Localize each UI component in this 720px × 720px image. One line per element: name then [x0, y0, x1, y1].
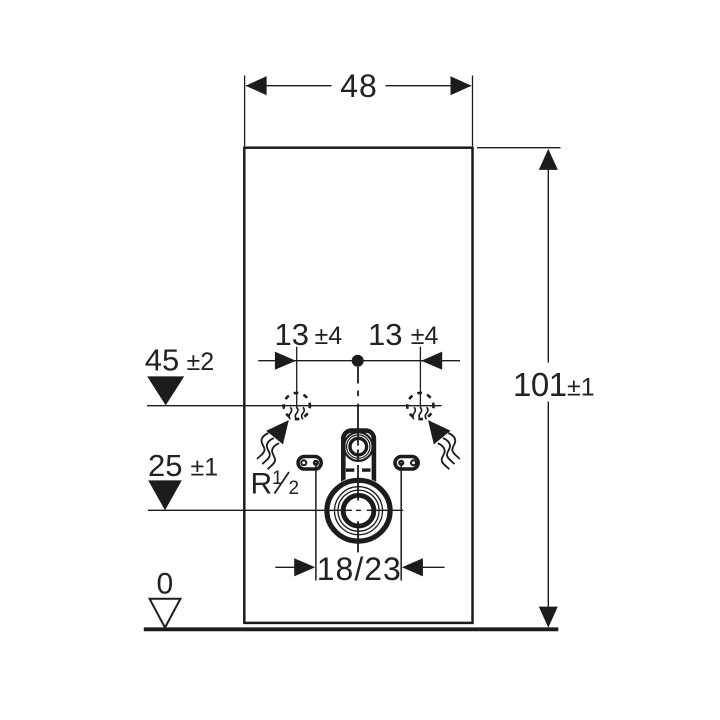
svg-text:13: 13: [368, 317, 402, 352]
dimension line 48 right segment: [386, 85, 472, 87]
svg-text:45: 45: [145, 342, 179, 377]
arrowhead 18/23 right: [402, 558, 423, 576]
module outline rectangle: [244, 148, 472, 623]
dimension line 18/23 right segment: [423, 566, 445, 568]
dimension line 13/13: [258, 360, 460, 362]
svg-text:1: 1: [272, 468, 283, 489]
svg-text:0: 0: [157, 567, 174, 600]
supply arrow left wavy tails: [257, 433, 279, 469]
svg-text:2: 2: [289, 478, 300, 499]
drain outlet rings: [327, 480, 390, 541]
extension line top of dim 101: [477, 147, 561, 149]
svg-text:±1: ±1: [567, 374, 595, 402]
level line 25 left segment: [148, 509, 352, 511]
svg-text:101: 101: [513, 366, 567, 403]
svg-text:±2: ±2: [187, 348, 215, 376]
extension line left of dim 48: [244, 76, 246, 147]
arrowhead 48 left: [246, 76, 267, 95]
housing step dash right: [362, 468, 370, 471]
arrowhead 13 right: [421, 352, 442, 370]
fraction slash: [275, 472, 290, 494]
arrowhead 101 bottom: [539, 607, 558, 628]
fixing plate right small hole: [411, 460, 416, 465]
center reference dot: [352, 355, 364, 367]
squiggles inside left dashed circle: [289, 407, 304, 419]
extension line right of dim 48: [472, 76, 474, 147]
extension line from right plate: [400, 463, 402, 581]
fixing plate right donut hole: [399, 461, 403, 465]
fixing plate left donut hole: [314, 461, 318, 465]
svg-text:18/23: 18/23: [317, 551, 402, 587]
level marker triangle 45: [147, 376, 184, 405]
svg-text:13: 13: [275, 317, 309, 352]
supply arrow left: [266, 420, 289, 444]
fixing plate right: [395, 457, 418, 470]
extension line 13 right: [419, 347, 421, 409]
svg-text:±4: ±4: [411, 322, 439, 350]
svg-text:±1: ±1: [191, 454, 219, 482]
fixing plate left small hole: [301, 460, 306, 465]
fixing plate left: [298, 457, 321, 470]
filling valve connection rings: [344, 432, 373, 461]
svg-text:25: 25: [148, 448, 182, 483]
dimension line 101 lower segment: [547, 402, 549, 627]
level line 45: [147, 405, 442, 407]
level line 25 center dash: [356, 509, 361, 511]
arrowhead 101 top: [539, 149, 558, 170]
arrowhead 18/23 left: [294, 558, 315, 576]
level marker triangle 25: [148, 480, 182, 510]
zero level open triangle: [150, 599, 181, 628]
arrowhead 48 right: [451, 76, 472, 95]
dimension line 48 left segment: [246, 85, 332, 87]
center line vertical segments: [357, 367, 359, 553]
drain outlet white mask: [324, 477, 394, 544]
squiggles inside right dashed circle: [413, 407, 428, 419]
floor line: [144, 627, 559, 631]
housing step dash left: [346, 468, 354, 471]
extension line from left plate: [315, 463, 317, 581]
svg-text:±4: ±4: [315, 322, 343, 350]
svg-text:R: R: [251, 468, 273, 501]
dimension line 101 upper segment: [547, 150, 549, 363]
supply arrow right: [428, 420, 451, 444]
extension line 13 left: [296, 347, 298, 409]
dimension line 18/23 left segment: [275, 566, 294, 568]
svg-text:48: 48: [340, 68, 378, 104]
dashed circle right (water supply opening): [407, 393, 433, 419]
dashed circle left (water supply opening): [284, 393, 310, 419]
level line 25 right segment: [367, 509, 404, 511]
flush bend housing: [343, 431, 374, 511]
supply arrow right wavy tails: [438, 433, 460, 469]
arrowhead 13 left: [275, 352, 296, 370]
